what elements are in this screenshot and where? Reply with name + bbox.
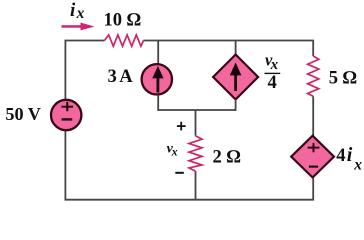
- wire left bottom: [64, 131, 66, 200]
- middle wire: [157, 109, 236, 111]
- voltage source 50V circle: [51, 100, 81, 130]
- svg-text:i: i: [70, 0, 76, 21]
- svg-text:A: A: [119, 66, 133, 87]
- current source 3A circle: [142, 64, 172, 94]
- minus sign inside 50V source: [62, 118, 73, 120]
- svg-text:4: 4: [336, 145, 345, 166]
- svg-text:3: 3: [108, 66, 117, 87]
- wire vx/4 branch bottom: [235, 100, 237, 111]
- svg-text:10 Ω: 10 Ω: [104, 9, 142, 30]
- wire top-left segment: [65, 41, 104, 100]
- wire right middle (5 ohm to 4ix diamond): [312, 96, 314, 136]
- wire 2 ohm branch bottom: [195, 171, 197, 200]
- plus sign above 2 ohm: [177, 122, 186, 131]
- wire 2 ohm branch top: [195, 110, 197, 136]
- wire top-right segment: [144, 41, 314, 57]
- dependent current source vx/4 diamond: [213, 55, 258, 100]
- svg-text:x: x: [171, 144, 178, 158]
- resistor 2 ohm zigzag: [189, 136, 202, 172]
- svg-text:5 Ω: 5 Ω: [329, 67, 357, 88]
- dependent voltage source 4ix diamond: [291, 136, 334, 178]
- svg-text:i: i: [347, 144, 353, 166]
- fraction bar of vx/4: [265, 72, 281, 74]
- minus sign below vx label: [175, 172, 184, 174]
- wire right bottom: [312, 178, 314, 201]
- svg-text:x: x: [353, 156, 362, 173]
- svg-text:4: 4: [268, 72, 277, 93]
- wire vx/4 branch top: [235, 41, 237, 56]
- svg-text:x: x: [76, 5, 85, 22]
- svg-text:2 Ω: 2 Ω: [213, 147, 241, 168]
- svg-text:x: x: [270, 57, 279, 73]
- resistor 5 ohm zigzag: [308, 56, 319, 96]
- resistor 10 ohm zigzag: [105, 35, 144, 46]
- wire 3A branch top: [157, 41, 159, 65]
- plus sign inside 50V source: [62, 102, 74, 111]
- bottom wire: [65, 199, 315, 201]
- arrow inside 3A source: [152, 66, 163, 93]
- plus sign inside 4ix source: [308, 143, 320, 152]
- wire 3A branch bottom: [157, 95, 159, 111]
- current arrow ix (top left): [62, 23, 95, 31]
- svg-text:50 V: 50 V: [5, 104, 41, 124]
- arrow inside vx/4 source: [230, 63, 242, 92]
- minus sign inside 4ix source: [309, 166, 318, 168]
